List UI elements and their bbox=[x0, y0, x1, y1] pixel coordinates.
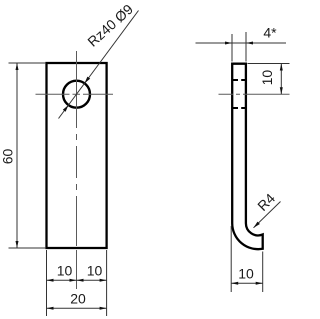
hole circle Ø9 bbox=[63, 81, 90, 108]
arrow outside-left dim 4* bbox=[225, 42, 232, 45]
arrow up dim 60 bbox=[16, 63, 19, 70]
leader line R4 bbox=[254, 202, 281, 228]
arrow right end 20 bbox=[100, 307, 107, 310]
dimension line 60 bbox=[16, 63, 18, 248]
front view outline bbox=[47, 63, 107, 248]
side view hole centerline / extension for dim 10 bbox=[219, 93, 290, 95]
extension line left for dims 10/10 and 20 bbox=[46, 250, 48, 316]
dimension line 10 (side top) bbox=[280, 64, 282, 95]
extension line right for dims 10/10 and 20 bbox=[106, 250, 108, 316]
dimension line 10 (side bottom) bbox=[231, 282, 263, 284]
hole horizontal centerline bbox=[36, 93, 114, 95]
svg-text:60: 60 bbox=[0, 149, 15, 165]
extension line left for bottom dim 10 (side) bbox=[230, 226, 232, 292]
svg-text:10: 10 bbox=[259, 70, 275, 86]
arrow at upper-right circle edge bbox=[85, 77, 91, 84]
side view outline bbox=[232, 64, 263, 249]
arrow left end 20 bbox=[47, 307, 54, 310]
svg-text:20: 20 bbox=[70, 291, 86, 307]
extension line right for dim 4* bbox=[245, 32, 247, 62]
dimension line 10/10 bbox=[47, 279, 107, 281]
arrow down dim 10 (side) bbox=[280, 87, 283, 94]
svg-text:10: 10 bbox=[57, 263, 73, 279]
svg-text:10: 10 bbox=[87, 263, 103, 279]
arrow right bottom dim 10 bbox=[256, 282, 263, 285]
arrow left end 10/10 bbox=[47, 279, 54, 282]
arrow R4 leader bbox=[254, 222, 260, 228]
arrow at lower-left circle edge bbox=[63, 105, 69, 112]
extension line top for dim 60 bbox=[9, 62, 47, 64]
arrow down dim 60 bbox=[16, 241, 19, 248]
arrow outside-right dim 4* bbox=[246, 42, 253, 45]
arrow center pointing left bbox=[77, 279, 84, 282]
hidden line hole top bbox=[233, 79, 246, 81]
dimension line 20 bbox=[47, 307, 107, 309]
svg-text:4*: 4* bbox=[263, 25, 277, 41]
hole vertical centerline bbox=[76, 51, 78, 289]
extension line right for bottom dim 10 (side) bbox=[262, 252, 264, 293]
svg-text:10: 10 bbox=[238, 265, 254, 281]
extension line bottom for dim 60 bbox=[9, 247, 47, 249]
extension line left for dim 4* bbox=[231, 34, 233, 62]
dimension line 4* bbox=[196, 42, 287, 44]
arrow right end 10/10 bbox=[100, 279, 107, 282]
arrow center pointing right bbox=[70, 279, 77, 282]
arrow left bottom dim 10 bbox=[231, 282, 238, 285]
arrow up dim 10 (side) bbox=[280, 64, 283, 71]
hidden line hole bottom bbox=[233, 107, 246, 109]
leader line Rz40 Ø9 bbox=[59, 11, 139, 119]
extension line top for dim 10 (side) bbox=[248, 63, 290, 65]
